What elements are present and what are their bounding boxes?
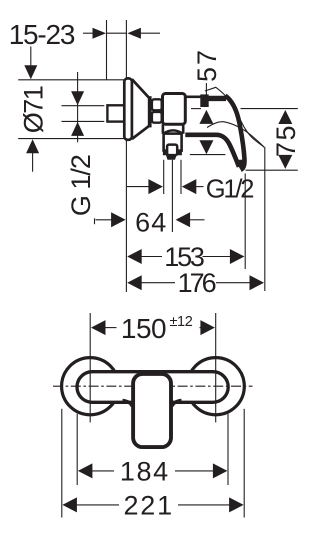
svg-text:15-23: 15-23 xyxy=(9,19,75,50)
svg-text:221: 221 xyxy=(123,490,173,520)
svg-text:64: 64 xyxy=(135,208,167,238)
svg-text:57: 57 xyxy=(192,48,222,82)
svg-text:G 1/2: G 1/2 xyxy=(66,155,96,216)
svg-text:150: 150 xyxy=(121,313,166,344)
svg-text:184: 184 xyxy=(120,456,170,486)
svg-text:Ø71: Ø71 xyxy=(19,86,49,133)
svg-text:176: 176 xyxy=(178,268,216,298)
svg-text:G1/2: G1/2 xyxy=(206,176,254,204)
svg-text:75: 75 xyxy=(271,124,301,157)
svg-text:±12: ±12 xyxy=(170,314,193,330)
